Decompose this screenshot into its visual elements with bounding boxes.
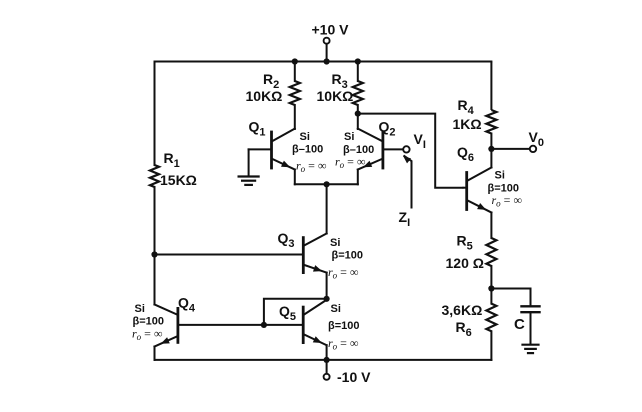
wire R6 top lead (490, 289, 492, 304)
svg-text:β=100: β=100 (328, 320, 360, 332)
transistor Q2 (381, 132, 384, 168)
svg-text:Q6: Q6 (457, 144, 474, 164)
wire Q2 base (383, 148, 404, 150)
power -10 V terminal (324, 374, 330, 380)
svg-text:ro = ∞: ro = ∞ (132, 327, 163, 343)
wire emitter coupling (295, 183, 358, 185)
svg-text:1KΩ: 1KΩ (453, 116, 482, 132)
wire Zi probe (404, 156, 412, 209)
ground (capacitor) (523, 344, 539, 346)
transistor Q6 (465, 173, 468, 210)
svg-text:Q1: Q1 (249, 119, 266, 139)
svg-text:Si: Si (331, 303, 341, 315)
wire -10V stem (326, 360, 328, 373)
wire R3 top lead (357, 62, 359, 82)
svg-text:Q5: Q5 (279, 303, 296, 323)
wire R2 top lead (294, 62, 296, 82)
svg-text:-10 V: -10 V (337, 369, 371, 385)
svg-text:Si: Si (344, 131, 354, 143)
wire Q6 collector lead (490, 149, 492, 168)
svg-text:R4: R4 (458, 97, 475, 117)
wire R6 bottom lead (490, 331, 492, 360)
node R4 / Vo junction (488, 146, 494, 152)
node junction top-center (+10V tap) (324, 58, 330, 64)
svg-text:10KΩ: 10KΩ (317, 88, 354, 104)
svg-text:ZI: ZI (399, 209, 411, 229)
wire bottom rail (155, 359, 492, 361)
wire Q5 emitter drop (326, 345, 328, 360)
svg-text:R6: R6 (456, 319, 472, 339)
svg-text:R1: R1 (164, 150, 180, 170)
node junction top-right (R3 tap) (355, 58, 361, 64)
svg-text:+10 V: +10 V (312, 21, 350, 37)
wire capacitor to ground (530, 312, 532, 343)
wire Q4-Q5 base (178, 324, 303, 326)
node junction R3 bottom / Q6 base feed (355, 111, 361, 117)
node R5/R6/C junction (488, 285, 494, 291)
wire right rail top (490, 62, 492, 111)
svg-text:β–100: β–100 (292, 144, 323, 156)
wire to Vo (491, 148, 529, 150)
transistor Q5 (302, 307, 305, 343)
wire top rail (155, 61, 492, 63)
svg-text:C: C (514, 316, 525, 333)
svg-text:120 Ω: 120 Ω (446, 255, 484, 271)
svg-text:ro = ∞: ro = ∞ (492, 193, 523, 209)
node junction top-left (R2 tap) (292, 58, 298, 64)
svg-text:ro = ∞: ro = ∞ (335, 154, 366, 170)
power +10 V terminal (324, 38, 330, 44)
wire R5 bottom lead (490, 266, 492, 289)
svg-text:Q3: Q3 (278, 230, 295, 250)
capacitor C (522, 305, 540, 307)
wire tail down to Q3 (326, 184, 328, 233)
svg-text:Si: Si (300, 131, 310, 143)
wire left rail lower (154, 255, 156, 305)
wire R3 bottom lead (357, 105, 359, 129)
wire R3-junction to Q6 base (358, 114, 464, 188)
transistor Q3 (302, 238, 305, 273)
wire Q5 collector-base strap (264, 299, 327, 325)
wire to capacitor (491, 289, 530, 306)
node junction left rail / Q3 base (151, 251, 157, 257)
svg-text:10KΩ: 10KΩ (246, 88, 283, 104)
svg-text:ro = ∞: ro = ∞ (296, 158, 327, 174)
svg-text:β=100: β=100 (332, 250, 364, 262)
resistor R5 (486, 238, 496, 266)
wire Q1 emitter drop (294, 170, 296, 185)
wire R2 bottom lead (294, 105, 296, 129)
wire left rail upper (154, 62, 156, 166)
svg-text:15KΩ: 15KΩ (160, 172, 197, 188)
svg-text:Q4: Q4 (178, 295, 196, 315)
svg-text:ro = ∞: ro = ∞ (328, 265, 359, 281)
resistor R3 (353, 81, 363, 105)
svg-text:ro = ∞: ro = ∞ (328, 336, 359, 352)
svg-text:Q2: Q2 (379, 119, 396, 139)
svg-text:Si: Si (135, 303, 145, 315)
svg-text:3,6KΩ: 3,6KΩ (442, 302, 483, 318)
node Vi input terminal (403, 146, 409, 152)
transistor Q1 (270, 132, 273, 168)
node emitter coupling junction (324, 181, 330, 187)
wire Q6 base stub (464, 187, 467, 189)
ground (Q1 base) (239, 175, 259, 177)
transistor Q4 (176, 308, 179, 342)
wire Q2 emitter drop (357, 170, 359, 185)
wire Q3 base (155, 254, 304, 256)
svg-text:VI: VI (414, 131, 426, 151)
svg-text:R5: R5 (457, 233, 473, 253)
svg-text:Si: Si (495, 170, 505, 182)
wire left rail middle (154, 187, 156, 255)
wire Q4 emitter drop (154, 347, 156, 360)
wire Q1 base to ground (248, 149, 250, 175)
resistor R1 (150, 165, 159, 187)
node Q5 emitter / bottom rail junction (324, 357, 330, 363)
wire Q1 base (249, 148, 272, 150)
svg-text:Si: Si (330, 237, 340, 249)
wire R4 bottom lead (490, 134, 492, 149)
wire Q3 emitter drop (326, 273, 328, 299)
node Q5 base strap junction (261, 322, 267, 328)
resistor R2 (290, 81, 300, 105)
wire Q6 emitter drop (490, 213, 492, 239)
resistor R4 (486, 110, 496, 134)
resistor R6 (486, 304, 496, 332)
node Vo output terminal (530, 146, 536, 152)
node Q3 emitter / Q5 collector junction (324, 296, 330, 302)
